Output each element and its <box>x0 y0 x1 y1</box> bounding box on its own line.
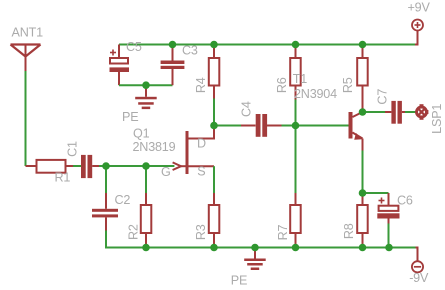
svg-text:R6: R6 <box>275 77 289 93</box>
antenna ANT1 <box>11 45 41 72</box>
svg-text:C1: C1 <box>65 141 79 157</box>
wire C4 to base node <box>282 125 296 127</box>
supply -9V <box>412 248 423 273</box>
svg-text:S: S <box>197 165 205 179</box>
svg-text:C5: C5 <box>126 40 142 54</box>
svg-text:2N3904: 2N3904 <box>294 87 337 101</box>
junction drain node <box>210 122 218 130</box>
capacitor C1 <box>81 155 99 178</box>
resistor R4 <box>209 45 220 99</box>
svg-text:C6: C6 <box>397 194 413 208</box>
svg-text:C4: C4 <box>240 101 254 117</box>
junction R7/rail <box>292 244 300 252</box>
wire R4 to drain node <box>213 99 215 126</box>
svg-text:R7: R7 <box>276 224 290 240</box>
wire <box>255 247 296 249</box>
resistor R7 <box>290 193 301 248</box>
wire C5 to ground node <box>119 84 146 86</box>
resistor R5 <box>357 45 368 113</box>
resistor R3 <box>209 193 220 248</box>
svg-text:R1: R1 <box>55 171 71 185</box>
speaker terminal LSP1 <box>417 104 429 120</box>
wire <box>214 44 296 46</box>
capacitor C3 <box>161 45 185 86</box>
wire C6 to rail <box>388 224 390 248</box>
svg-text:R4: R4 <box>194 77 208 93</box>
wire <box>214 247 255 249</box>
wire base node to T1 base <box>296 125 349 127</box>
wire C7 to LSP1 <box>405 111 416 113</box>
wire <box>363 44 416 46</box>
wire R6 to base node <box>295 100 297 126</box>
capacitor C2 <box>92 193 118 231</box>
wire C1 to node <box>99 165 106 167</box>
wire R1 to C1 <box>73 165 81 167</box>
junction R3/rail <box>210 244 218 252</box>
junction R2/rail <box>142 244 150 252</box>
wire emitter node to C6 <box>363 192 389 194</box>
wire antenna to R1 <box>25 71 27 166</box>
svg-text:LSP1: LSP1 <box>430 104 444 134</box>
wire node B down to R2 <box>145 166 147 193</box>
wire base node down to R7 <box>295 126 297 194</box>
svg-text:PE: PE <box>122 110 138 124</box>
junction node A <box>102 162 110 170</box>
wire source down to R3 <box>213 166 215 193</box>
junction C6/rail <box>385 244 393 252</box>
capacitor C4 <box>241 114 282 137</box>
junction C3/rail <box>169 41 177 49</box>
wire drain node to C4 <box>214 125 241 127</box>
transistor Q1 (JFET) <box>173 126 214 175</box>
wire <box>173 44 215 46</box>
svg-text:-9V: -9V <box>409 271 429 285</box>
junction node B <box>142 162 150 170</box>
svg-text:Q1: Q1 <box>133 127 150 141</box>
wire <box>389 247 416 249</box>
top rail wire segments <box>119 44 173 46</box>
svg-text:R2: R2 <box>127 224 141 240</box>
svg-text:+9V: +9V <box>408 1 431 15</box>
junction collector node <box>359 108 367 116</box>
wire node A down to C2 <box>105 166 107 193</box>
svg-text:2N3819: 2N3819 <box>133 140 176 154</box>
junction R6/rail <box>292 41 300 49</box>
svg-text:G: G <box>161 165 171 179</box>
ground PE top <box>135 85 157 109</box>
svg-text:R8: R8 <box>342 223 356 239</box>
supply +9V <box>412 20 423 45</box>
wire <box>296 247 363 249</box>
wire C2 to bottom rail <box>106 231 146 248</box>
wire collector node to C7 <box>363 111 386 113</box>
wire node A to node B <box>106 165 146 167</box>
svg-text:D: D <box>197 137 206 151</box>
junction emitter node <box>359 189 367 197</box>
junction R5/rail <box>359 41 367 49</box>
svg-text:R5: R5 <box>341 77 355 93</box>
wire <box>363 247 390 249</box>
bottom rail wire segments <box>146 247 214 249</box>
svg-text:PE: PE <box>231 274 247 288</box>
transistor T1 <box>349 112 363 151</box>
capacitor C6 (polarized) <box>377 193 399 224</box>
svg-text:C7: C7 <box>376 89 390 105</box>
resistor R2 <box>141 193 152 248</box>
capacitor C5 (polarized) <box>110 45 130 86</box>
svg-text:C3: C3 <box>182 44 198 58</box>
junction PE/rail <box>251 244 259 252</box>
svg-text:R3: R3 <box>194 224 208 240</box>
junction ground node <box>142 81 150 89</box>
resistor R6 <box>290 45 301 100</box>
wire <box>296 44 363 46</box>
wire gate <box>146 165 174 167</box>
wire emitter down <box>362 151 364 194</box>
wire ground node to C3 <box>146 84 173 86</box>
resistor R8 <box>357 193 368 248</box>
junction base node <box>292 122 300 130</box>
junction R8/rail <box>359 244 367 252</box>
resistor R1 <box>26 160 74 173</box>
svg-text:ANT1: ANT1 <box>12 26 44 40</box>
capacitor C7 <box>385 101 405 124</box>
svg-text:C2: C2 <box>115 193 131 207</box>
junction R4/rail <box>210 41 218 49</box>
ground PE bottom <box>244 248 266 271</box>
svg-text:T1: T1 <box>293 72 307 86</box>
